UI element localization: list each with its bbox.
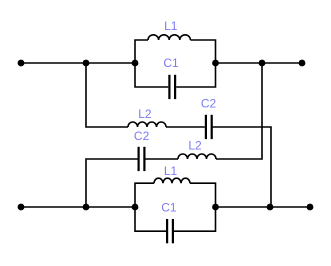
inductor L1 (top tank) [148, 19, 190, 40]
svg-text:C1: C1 [163, 56, 179, 70]
wire left vertical arm 1 [86, 63, 128, 127]
wire bottom rail right segment [216, 206, 311, 208]
wire top rail left segment [21, 62, 135, 64]
svg-text:L1: L1 [164, 19, 178, 33]
inductor L1 (bottom tank) [154, 164, 190, 183]
top tank outline [135, 40, 216, 87]
svg-text:C2: C2 [134, 129, 150, 143]
capacitor C1 (top tank) [163, 56, 179, 99]
node bottom tank right [212, 204, 219, 211]
node junction bottom-right [267, 204, 274, 211]
capacitor C2 (upper arm) [201, 96, 217, 139]
capacitor C2 (lower arm) [134, 129, 150, 171]
inductor L2 (lower arm) [178, 138, 216, 159]
wire right vertical arm 2 (cross to top) [216, 63, 262, 159]
terminal right-top [299, 60, 306, 67]
svg-text:L2: L2 [138, 107, 152, 121]
terminal left-top [18, 60, 25, 67]
svg-text:C2: C2 [201, 96, 217, 110]
terminal left-bottom [18, 204, 25, 211]
node junction bottom-left [83, 204, 90, 211]
bottom tank outline [135, 183, 216, 231]
inductor L2 (upper arm) [128, 107, 166, 127]
svg-text:L2: L2 [188, 138, 202, 152]
svg-text:C1: C1 [161, 201, 177, 215]
wire top rail right segment [216, 62, 303, 64]
wire left vertical arm 2 [86, 159, 138, 207]
wire lower arm mid [145, 158, 178, 160]
node junction top-right [259, 60, 266, 67]
node bottom tank left [132, 204, 139, 211]
wire upper arm mid [166, 126, 205, 128]
node top tank right [212, 60, 219, 67]
node top tank left [132, 60, 139, 67]
capacitor C1 (bottom tank) [161, 201, 177, 244]
wire right vertical arm 1 (cross to bottom) [212, 127, 271, 207]
wire bottom rail left segment [21, 206, 135, 208]
terminal right-bottom [307, 204, 314, 211]
svg-text:L1: L1 [164, 164, 178, 178]
node junction top-left [83, 60, 90, 67]
